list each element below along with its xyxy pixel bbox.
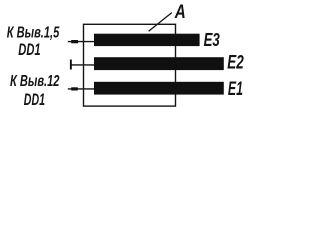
- svg-text:E3: E3: [204, 29, 221, 50]
- svg-text:E1: E1: [228, 78, 243, 100]
- svg-text:A: A: [174, 2, 186, 23]
- svg-text:E2: E2: [227, 52, 244, 74]
- arrow on E3 wire: [71, 40, 78, 43]
- svg-text:DD1: DD1: [18, 41, 40, 59]
- electrode E3: [94, 34, 200, 46]
- wire to E3: [68, 41, 95, 43]
- svg-text:К Выв.1,5: К Выв.1,5: [7, 25, 60, 42]
- arrow on E1 wire: [71, 87, 78, 90]
- electrode E2: [94, 57, 224, 70]
- substrate outline A: [84, 24, 176, 106]
- svg-text:DD1: DD1: [24, 91, 45, 109]
- socket bar on E2 wire: [70, 60, 72, 70]
- electrode E1: [94, 82, 224, 95]
- svg-text:К Выв.12: К Выв.12: [10, 73, 60, 90]
- wire to E1: [68, 88, 95, 90]
- wire to E2: [71, 64, 95, 66]
- leader line to label A: [149, 13, 172, 32]
